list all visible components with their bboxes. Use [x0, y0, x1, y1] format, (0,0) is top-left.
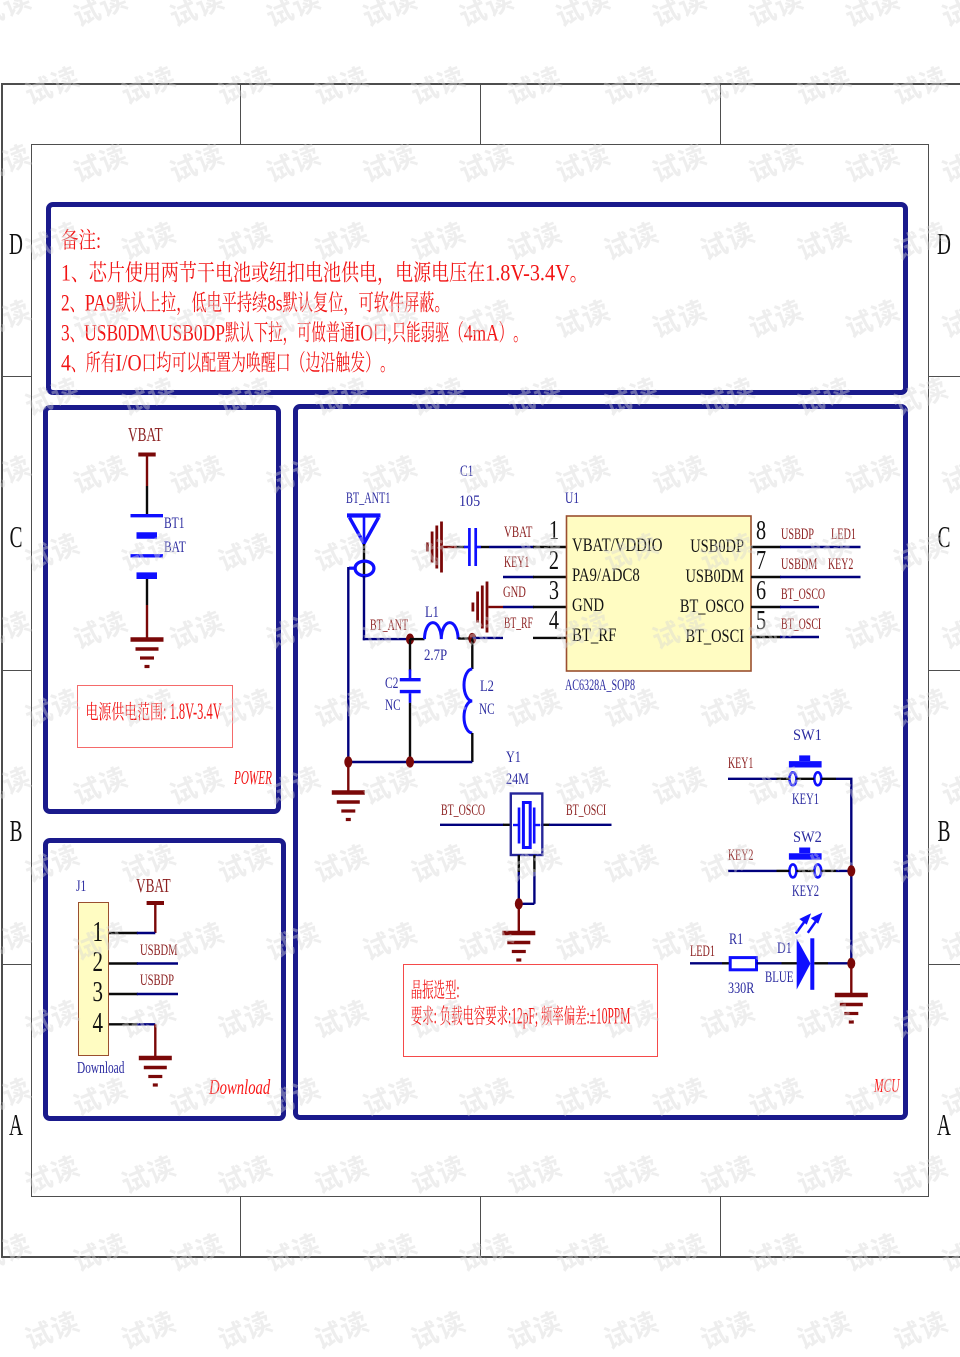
svg-text:2: 2	[61, 291, 70, 316]
net label BT_OSCO	[441, 803, 485, 819]
label D1	[777, 941, 792, 958]
junction KEY2	[847, 865, 855, 876]
U1 pin number 3	[537, 575, 559, 606]
label POWER	[234, 768, 272, 789]
wire pin4 to ground	[154, 1024, 156, 1057]
border tick bottom x480	[480, 1197, 481, 1258]
wire junction to L1	[410, 638, 425, 640]
wire node to chip pin4	[472, 637, 503, 639]
pin8 USBDP wire	[780, 546, 861, 548]
crystal selection note	[412, 980, 422, 999]
border tick right y376	[929, 376, 960, 377]
border tick right y670	[929, 670, 960, 671]
ground (LED)	[835, 995, 868, 1022]
wire R1 to D1	[757, 962, 782, 964]
label 105	[459, 494, 480, 511]
border tick left y376	[2, 376, 31, 377]
svg-text:,: ,	[387, 321, 391, 346]
svg-text:1.8V-3.4V: 1.8V-3.4V	[485, 261, 570, 286]
LED D1	[797, 938, 815, 990]
zone letter D left	[9, 226, 24, 262]
svg-text:PA9: PA9	[85, 291, 116, 316]
notes box	[46, 202, 908, 395]
border tick bottom x720	[720, 1197, 721, 1258]
border tick top x720	[720, 83, 721, 144]
label Download (connector)	[77, 1059, 124, 1076]
label VBAT (power)	[128, 426, 163, 446]
wire VBAT to battery	[146, 456, 148, 486]
pin4 stub	[533, 637, 567, 639]
wire L1 to node	[458, 637, 472, 639]
net label BT_RF (pin4)	[504, 616, 533, 632]
wire bus to ground	[347, 762, 349, 792]
battery BT1	[131, 516, 164, 576]
svg-text:4mA: 4mA	[464, 321, 499, 346]
U1 pin name GND	[572, 597, 604, 616]
label AC6328A_SOP8	[565, 678, 635, 695]
switch SW1	[789, 755, 822, 785]
chip U1 pin 7 stub	[751, 576, 781, 578]
U1 pin name PA9/ADC8	[572, 567, 640, 586]
pin7 USBDM wire	[780, 576, 861, 578]
U1 pin name BT_OSCO	[632, 597, 744, 618]
label KEY1 (blue)	[792, 792, 819, 809]
junction crystal gnd	[515, 898, 523, 909]
U1 pin number 6	[756, 575, 778, 606]
svg-text:4: 4	[61, 351, 71, 376]
pin5 BT_OSCI wire	[780, 636, 819, 638]
U1 pin number 4	[537, 605, 559, 636]
zone letter C right	[937, 519, 952, 555]
label USBDM	[140, 943, 178, 960]
inductor L1	[425, 623, 459, 640]
label U1	[565, 491, 579, 508]
svg-text:USB0DM\USB0DP: USB0DM\USB0DP	[84, 321, 225, 346]
border tick right y964	[929, 964, 960, 965]
svg-text:8s: 8s	[267, 291, 282, 316]
label SW2	[793, 830, 822, 847]
crystal Y1 symbol	[511, 794, 543, 856]
wire J1 pin 2	[109, 962, 138, 964]
wire C1 to pin1: black stub, net wire, pin stub	[481, 546, 489, 548]
capacitor C2	[409, 639, 411, 670]
label VBAT (J1)	[136, 877, 171, 897]
pin6 BT_OSCO wire	[780, 606, 819, 608]
border tick top x240	[240, 83, 241, 144]
ground (GND pin, sideways)	[473, 582, 487, 633]
antenna feed stub	[363, 544, 365, 578]
power net VBAT (battery)	[138, 453, 155, 457]
label BLUE	[765, 970, 793, 987]
label SW1	[793, 728, 822, 745]
label L2	[480, 679, 494, 696]
notes text line @248	[62, 229, 78, 250]
crystal case pins to gnd	[518, 855, 520, 872]
wire battery to ground	[146, 579, 148, 605]
POWER section box	[43, 405, 281, 814]
ground (download section)	[139, 1058, 172, 1085]
label BT_ANT1	[346, 491, 390, 508]
resistor R1	[730, 958, 756, 970]
ground (power section)	[131, 640, 164, 667]
U1 pin number 8	[756, 515, 778, 546]
label R1	[729, 932, 743, 949]
svg-text::12pF;: :12pF;	[508, 1004, 541, 1029]
zone letter D right	[937, 226, 952, 262]
label NC (C2)	[385, 698, 401, 715]
label MCU (section)	[874, 1076, 900, 1098]
pin2 KEY1 wire	[503, 576, 534, 578]
wire junction to ground	[850, 963, 852, 994]
label 330R	[728, 981, 754, 998]
J1 pin number 4	[81, 1008, 104, 1040]
net labels right pins	[781, 527, 814, 543]
antenna feed ellipse	[355, 561, 374, 576]
border tick bottom x240	[240, 1197, 241, 1258]
net label KEY1 (pin2)	[504, 555, 529, 571]
U1 pin number 2	[537, 545, 559, 576]
border tick left y964	[2, 964, 31, 965]
net label BT_OSCI	[566, 803, 606, 819]
junction gnd bus left	[344, 756, 352, 767]
zone letter B left	[9, 813, 24, 849]
chip U1 pin 8 stub	[751, 546, 781, 548]
junction gnd bus C2	[406, 756, 414, 767]
zone letter C left	[9, 519, 24, 555]
capacitor C1	[464, 528, 481, 566]
label J1	[76, 879, 86, 896]
svg-text:I/O: I/O	[116, 351, 142, 376]
key bus wire down	[850, 779, 852, 964]
svg-text::: :	[96, 228, 101, 253]
label C1	[460, 464, 473, 481]
inductor L2	[471, 639, 473, 670]
switch SW2	[789, 848, 822, 878]
label USBDP	[140, 973, 174, 990]
svg-text::: :	[434, 1004, 440, 1029]
U1 pin name BT_OSCI	[632, 627, 744, 648]
label L1	[425, 605, 439, 622]
power range note	[87, 702, 98, 720]
svg-text::: :	[456, 978, 459, 1003]
power range red box	[77, 685, 233, 748]
label Download (section)	[209, 1076, 270, 1098]
crystal note red box	[403, 964, 658, 1057]
wire gnd to pin3	[489, 606, 504, 608]
power net VBAT (J1)	[147, 901, 164, 905]
label NC (L2)	[479, 702, 495, 719]
border tick top x480	[480, 83, 481, 144]
chip U1 pin 6 stub	[751, 606, 781, 608]
U1 pin number 5	[756, 605, 778, 636]
label 24M	[506, 772, 529, 789]
wire J1 pin 3	[109, 993, 138, 995]
U1 pin number 1	[537, 515, 559, 546]
zone letter A right	[937, 1107, 952, 1143]
svg-text::±10PPM: :±10PPM	[587, 1004, 631, 1029]
net label LED1	[690, 944, 715, 960]
wire antenna to BT_ANT node	[363, 576, 365, 640]
node junction L1/L2	[468, 633, 476, 644]
wire antenna gnd branch	[347, 567, 349, 762]
label C2	[385, 676, 398, 693]
antenna BT_ANT1	[347, 516, 381, 544]
sheet inner border	[31, 144, 929, 1197]
label 2.7P	[424, 648, 447, 665]
wire J1 pin 4	[109, 1023, 138, 1025]
op-chip U1 AC6328A_SOP8 body	[567, 516, 752, 671]
J1 pin number 2	[81, 947, 104, 979]
chip U1 pin 5 stub	[751, 636, 781, 638]
label BT1	[164, 516, 184, 533]
node junction BT_ANT	[406, 634, 414, 645]
svg-text:IO: IO	[355, 321, 373, 346]
net label KEY1	[728, 756, 753, 772]
U1 pin name USB0DP	[632, 537, 744, 558]
wire D1 to junction	[814, 962, 828, 964]
border tick left y670	[2, 670, 31, 671]
MCU section box	[293, 404, 908, 1120]
U1 pin name USB0DM	[632, 567, 744, 588]
Download section box	[43, 838, 286, 1121]
label BAT	[164, 540, 186, 557]
gnd bus wire	[348, 761, 472, 763]
wire VBAT to pin1	[154, 904, 156, 933]
label KEY2 (blue)	[792, 884, 819, 901]
J1 pin number 3	[81, 977, 104, 1009]
net label GND (pin3)	[503, 585, 526, 601]
connector J1 body	[78, 902, 110, 1056]
J1 pin number 1	[81, 917, 104, 949]
wire to ground	[518, 904, 520, 932]
net label VBAT (pin1)	[504, 525, 532, 541]
wire J1 pin 1	[109, 932, 138, 934]
zone letter B right	[937, 813, 952, 849]
ground (C1, sideways)	[427, 522, 441, 573]
wire LED1 net	[690, 962, 722, 964]
U1 pin name BT_RF	[572, 627, 616, 646]
svg-text:: 1.8V-3.4V: : 1.8V-3.4V	[163, 699, 222, 725]
zone letter A left	[9, 1107, 24, 1143]
svg-text:3: 3	[61, 321, 70, 346]
wire gnd to C1	[443, 546, 457, 548]
label Y1	[506, 750, 521, 767]
net label KEY2	[728, 848, 753, 864]
U1 pin name VBAT/VDDIO	[572, 537, 662, 556]
junction LED/ground	[847, 958, 855, 969]
ground (antenna)	[332, 793, 365, 820]
U1 pin number 7	[756, 545, 778, 576]
svg-text:1: 1	[61, 261, 71, 286]
label BT_ANT (net)	[370, 618, 408, 634]
ground (crystal)	[502, 933, 535, 960]
crystal Y1 wires	[440, 824, 504, 826]
